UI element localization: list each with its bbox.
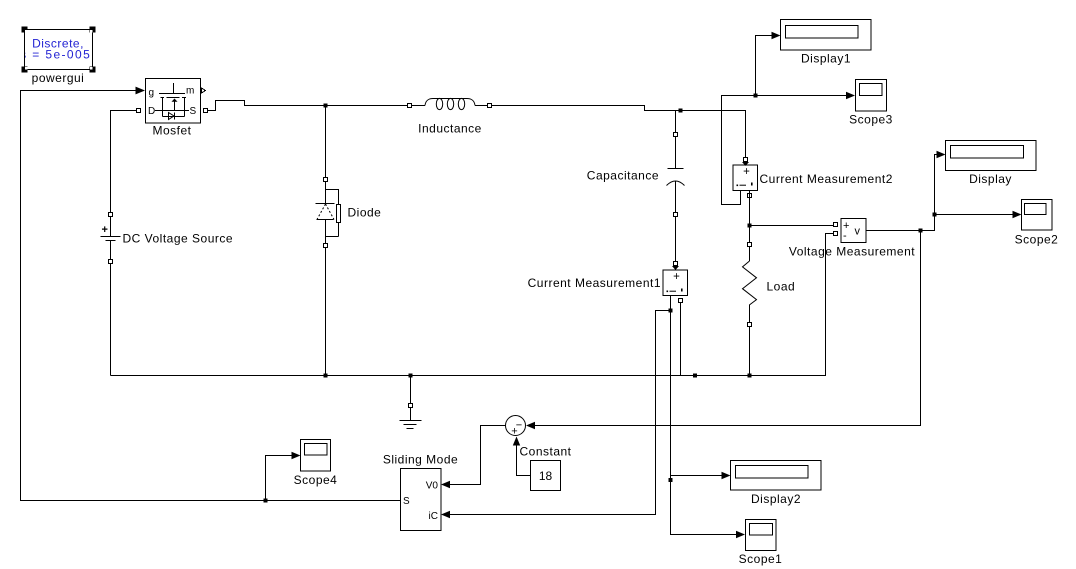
arrowhead into Display1 [772,32,781,39]
mosfet icon channel [161,97,165,99]
svg-text:powergui: powergui [32,71,85,85]
Display2 block [731,461,822,491]
wire DC source - down to bus [110,264,112,376]
svg-text:Scope4: Scope4 [294,473,338,487]
mosfet icon gate [173,83,175,93]
wire Load to bus [749,327,751,376]
wire feedback to sum [535,231,921,426]
mosfet icon internal diode [169,113,175,120]
Mosfet U1 block [146,79,201,124]
wire to Display [935,155,938,215]
Sliding Mode controller block [401,469,442,531]
svg-text:Display: Display [969,172,1012,186]
svg-text:Constant: Constant [519,445,571,459]
Diode D1 with snubber [316,182,341,244]
svg-text:m: m [186,86,195,97]
wire down to diode [325,106,327,178]
svg-text:iC: iC [429,511,438,522]
wire to Voltage Measurement + [750,225,834,227]
svg-text:Current Measurement1: Current Measurement1 [528,276,661,290]
arrowhead into Scope1 [736,531,745,538]
arrowhead into sum minus [526,422,535,429]
Capacitance ports [674,133,678,137]
Mosfet m output chevron [202,88,206,93]
ground junction [409,374,413,378]
wire CM2 signal to Scope3/Display1 [722,96,847,205]
Current Measurement2 block [733,165,758,191]
junction Display2 branch [669,478,673,482]
svg-text:+: + [743,166,750,178]
Sum block [506,416,526,438]
svg-text:Sliding Mode: Sliding Mode [383,453,458,467]
svg-text:S: S [403,496,410,507]
Current Measurement2 - port [748,194,752,198]
junction CM2/VM [748,224,752,228]
arrowhead into iC [441,511,450,518]
wire down to capacitor [675,111,677,133]
junction Display1 branch [754,94,758,98]
wire CM2 - down to VM+ and Load [749,191,751,243]
wire to Scope2 [935,214,1014,216]
Constant block [531,461,561,491]
junction Load bus [748,374,752,378]
svg-text:Scope2: Scope2 [1015,233,1059,247]
junction on bus near CM1 [693,374,697,378]
svg-text:Display1: Display1 [801,52,851,66]
svg-text:+: + [102,224,108,236]
wire capacitor to CM1 [675,217,677,271]
junction capacitor branch [679,109,683,113]
wire CM1 - to bus [680,303,682,376]
mosfet icon body [162,98,164,117]
Inductance L1 coil [412,98,490,109]
svg-text:+: + [673,271,680,283]
Current Measurement1 block [663,270,688,296]
arrowhead into Scope4 [292,452,301,459]
svg-text:Voltage Measurement: Voltage Measurement [789,245,915,259]
svg-text:Scope1: Scope1 [739,552,783,566]
wire CM1 signal to iC [450,311,671,515]
arrowhead into Mosfet g [136,87,146,95]
wire sum output to V0 [450,426,506,485]
arrowhead into sum plus [513,437,520,446]
junction Display/Scope2 [933,213,937,217]
Scope2 block [1022,200,1053,231]
svg-text:D: D [148,106,156,117]
Capacitance C1 [667,137,685,213]
Scope1 block [746,520,777,551]
junction diode top [324,104,328,108]
junction Scope4 branch [264,499,268,503]
wire to Display2 [671,475,723,477]
wire Constant to sum [517,445,531,476]
wire VM output to Scope2/Display junction [866,215,935,231]
wire to ground [410,376,412,404]
wire up to Display1 [756,36,773,96]
Display1 block [781,20,872,51]
junction CM1 signal [669,309,673,313]
svg-text:Display2: Display2 [751,492,801,506]
svg-text:S: S [190,106,197,117]
junction VM output [919,229,923,233]
svg-text:g: g [149,88,155,99]
Diode ports [324,178,328,182]
svg-text:Scope3: Scope3 [849,113,893,127]
wire diode to bus [325,248,327,376]
arrowhead into Scope3 [846,92,855,99]
Load ports [748,243,752,247]
DC Voltage Source ports [109,213,113,217]
Current Measurement1 + port [674,262,678,266]
svg-text:Ts = 5e-005 s: Ts = 5e-005 s [13,48,104,62]
wire CM1 signal down [671,296,737,535]
wire DC source + up to Mosfet D [111,111,137,213]
Display block [946,141,1037,171]
Voltage Measurement - port [834,232,838,236]
svg-text:Diode: Diode [348,206,382,220]
Inductance ports [408,104,412,108]
svg-text:Inductance: Inductance [418,122,482,136]
svg-text:v: v [855,226,861,238]
wire gate control from Sliding Mode S output to Mosfet g [21,91,401,501]
svg-text:Current Measurement2: Current Measurement2 [760,172,893,186]
Current Measurement1 - port [679,299,683,303]
Mosfet S port [204,109,208,113]
svg-text:Mosfet: Mosfet [152,124,191,138]
Scope3 block [856,80,887,112]
Scope4 block [301,440,331,472]
svg-text:18: 18 [539,469,553,483]
junction diode bus [324,374,328,378]
Voltage Measurement + port [834,223,838,227]
ground symbol [400,408,422,429]
ground port [409,404,413,408]
wire Mosfet S to inductor (with jog) [208,101,408,111]
powergui block (selected) [13,27,104,73]
bottom bus wire [111,234,834,376]
svg-text:Load: Load [767,280,796,294]
Current Measurement2 + port [744,158,748,162]
arrowhead into V0 [441,481,450,488]
Load resistor R1 [743,247,757,323]
Mosfet D port [137,109,141,113]
Voltage Measurement block [841,219,866,243]
arrowhead into Scope2 [1013,211,1022,218]
svg-text:+: + [511,426,517,438]
svg-text:Capacitance: Capacitance [587,169,659,183]
svg-text:V0: V0 [426,481,439,492]
wire inductor to capacitor rail and CM2 [492,106,746,158]
svg-text:-: - [843,230,847,242]
svg-text:DC Voltage Source: DC Voltage Source [123,232,234,246]
arrowhead into Display [937,151,946,158]
DC Voltage Source battery [101,217,121,260]
wire branch to Scope4 [266,456,293,501]
arrowhead into Display2 [722,472,731,479]
